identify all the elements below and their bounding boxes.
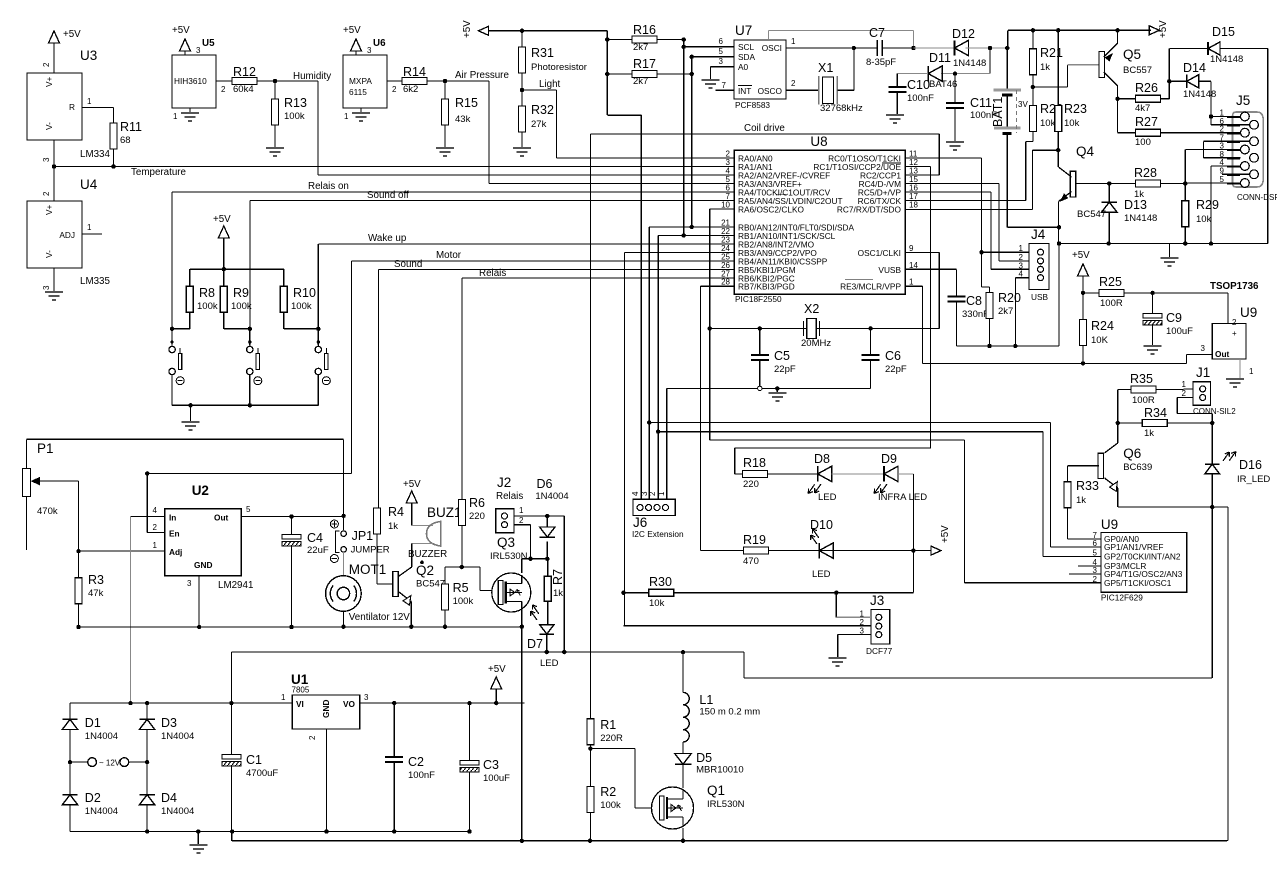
wire U2 In gray [131, 516, 165, 518]
svg-text:4: 4 [631, 491, 640, 496]
svg-text:D4: D4 [161, 791, 177, 805]
diode D9 INFRA LED [883, 466, 885, 481]
ground R13 [266, 147, 284, 149]
svg-text:100uF: 100uF [483, 773, 510, 784]
wire J6 pin4 gnd [666, 388, 668, 499]
svg-text:100k: 100k [291, 301, 312, 312]
resistor R34 1k [1118, 422, 1143, 424]
diode D4 1N4004 [146, 762, 148, 795]
overline UOE [882, 162, 901, 164]
svg-text:D9: D9 [881, 452, 897, 466]
svg-text:En: En [169, 529, 180, 539]
svg-text:RE3/MCLR/VPP: RE3/MCLR/VPP [840, 282, 901, 292]
transistor Q5 BC557 pnp [1099, 52, 1105, 78]
svg-text:U2: U2 [192, 483, 209, 498]
svg-text:J6: J6 [633, 515, 647, 530]
wire D15 right edge down [1267, 49, 1269, 244]
wire R25 to TSOP vcc [1153, 292, 1229, 294]
wire ground rail right [1059, 243, 1268, 245]
svg-text:U9: U9 [1101, 517, 1118, 532]
svg-text:R35: R35 [1130, 372, 1153, 386]
svg-text:R17: R17 [633, 57, 656, 71]
svg-text:D11: D11 [929, 51, 951, 65]
switch S1 [171, 329, 173, 346]
svg-text:INFRA LED: INFRA LED [878, 492, 927, 503]
svg-text:+5V: +5V [940, 525, 951, 543]
node R34/D16 [1210, 421, 1214, 425]
svg-text:GP5/T1CKI/OSC1: GP5/T1CKI/OSC1 [1104, 578, 1172, 588]
svg-text:MBR10010: MBR10010 [696, 765, 744, 776]
svg-text:D12: D12 [952, 27, 975, 41]
wire Q4 base to R28 [1075, 183, 1136, 185]
svg-text:1: 1 [87, 97, 92, 106]
svg-text:4700uF: 4700uF [246, 768, 278, 779]
svg-text:V+: V+ [44, 204, 54, 215]
svg-text:R5: R5 [453, 581, 469, 595]
wire usb gnd bus [957, 345, 1060, 347]
svg-text:Q6: Q6 [1123, 446, 1141, 461]
svg-text:R19: R19 [743, 533, 766, 547]
wire U8 pin14 VUSB [905, 268, 957, 270]
buzzer BUZ1 [412, 525, 431, 527]
wire TSOP gnd pin1 [1239, 359, 1241, 379]
svg-text:100k: 100k [600, 800, 621, 811]
svg-text:R: R [69, 102, 75, 112]
wire J5 pin5 from R28 node [1185, 182, 1240, 184]
svg-text:60k4: 60k4 [233, 84, 254, 95]
svg-text:2k7: 2k7 [998, 306, 1013, 317]
power +5V arrow U1 [494, 701, 498, 705]
svg-text:J2: J2 [497, 475, 511, 490]
wire Q6 base from R33 [1068, 465, 1100, 467]
svg-text:L1: L1 [699, 693, 713, 707]
wire D9 to +5V line [912, 474, 914, 593]
svg-text:SCL: SCL [738, 42, 755, 52]
wire Humidity [275, 80, 318, 82]
node Light [520, 88, 524, 92]
svg-text:3: 3 [367, 46, 372, 55]
svg-text:Q2: Q2 [416, 563, 434, 578]
overline MCLR RE3 [845, 278, 873, 280]
wire Q6 emitter down right [1227, 507, 1229, 840]
node R28/D13 [1107, 181, 1111, 185]
ground R32 [513, 147, 531, 149]
svg-text:U6: U6 [373, 38, 386, 49]
wire U9 pin4 stub [1078, 565, 1101, 567]
diode D16 IR_LED [1211, 423, 1213, 464]
ground main [197, 832, 199, 846]
wire J5 pin6 [1211, 124, 1250, 126]
svg-text:Relais: Relais [479, 268, 506, 279]
node R31 top [520, 29, 524, 33]
wire +5V top right rail [1008, 29, 1151, 31]
svg-text:P1: P1 [37, 441, 54, 456]
resistor R26 4k7 [1118, 98, 1136, 100]
svg-text:R9: R9 [233, 286, 249, 300]
svg-text:1: 1 [173, 112, 178, 121]
diode D1 1N4004 [69, 703, 71, 719]
svg-text:MXPA: MXPA [349, 76, 372, 86]
diode D11 BAT46 [989, 48, 991, 74]
wire SDA bus [691, 57, 693, 227]
svg-text:150 m 0.2 mm: 150 m 0.2 mm [699, 707, 760, 718]
wire J5 pins7-8 short [1204, 140, 1250, 142]
svg-text:4k7: 4k7 [1135, 103, 1150, 114]
svg-text:D14: D14 [1183, 61, 1206, 75]
svg-text:A0: A0 [738, 62, 749, 72]
svg-text:1N4004: 1N4004 [85, 806, 118, 817]
resistor R6 220 [459, 499, 466, 525]
svg-text:PIC18F2550: PIC18F2550 [735, 294, 782, 304]
svg-text:C9: C9 [1166, 311, 1182, 325]
resistor R30 10k [623, 592, 648, 594]
svg-text:I2C Extension: I2C Extension [632, 529, 684, 539]
ground U6 pin1 [360, 108, 362, 113]
svg-text:BC639: BC639 [1123, 462, 1152, 473]
resistor R29 10k [1184, 184, 1186, 201]
wire U1 VO rail [360, 702, 525, 704]
svg-text:22pF: 22pF [885, 364, 907, 375]
node Humidity [273, 79, 277, 83]
wire Q1 gate [590, 748, 635, 750]
svg-text:R1: R1 [600, 718, 616, 732]
node R28/J5 [1183, 181, 1187, 185]
svg-text:1: 1 [791, 37, 796, 46]
svg-text:1: 1 [87, 223, 92, 232]
resistor R18 220 [735, 473, 743, 475]
svg-text:BC557: BC557 [1123, 65, 1152, 76]
wire U4 ADJ stub [82, 233, 102, 235]
svg-text:C2: C2 [408, 755, 424, 769]
svg-text:V+: V+ [44, 76, 54, 87]
svg-text:2: 2 [221, 85, 226, 94]
svg-text:Adj: Adj [169, 547, 182, 557]
transistor Q1 IRL530N [652, 787, 694, 829]
resistor R27 100 [1117, 99, 1119, 133]
wire J5 pin2 from R27 [1161, 132, 1241, 134]
resistor R28 1k [1136, 180, 1161, 187]
svg-text:3: 3 [187, 579, 192, 588]
node R6/R5/gate [460, 565, 464, 569]
wire U8 pin9 OSC1 [905, 252, 939, 254]
svg-text:BC547: BC547 [416, 579, 445, 590]
svg-text:R20: R20 [998, 291, 1021, 305]
svg-text:1N4004: 1N4004 [535, 491, 568, 502]
wire +5V drop to J6 pin1 [606, 31, 608, 115]
wire Q3 source [521, 610, 523, 841]
power +5V buzzer [406, 491, 417, 503]
battery BAT1 3V [1006, 48, 1008, 90]
resistor R31 Photoresistor [521, 31, 523, 47]
svg-text:IRL530N: IRL530N [707, 799, 745, 810]
svg-text:2: 2 [791, 79, 796, 88]
ground R15 [436, 147, 454, 149]
svg-text:1N4148: 1N4148 [1124, 213, 1157, 224]
svg-text:R27: R27 [1135, 115, 1158, 129]
node L1 top [681, 650, 685, 654]
svg-text:Out: Out [1215, 349, 1230, 359]
svg-text:27k: 27k [531, 119, 547, 130]
wire U8 pin28 RB7 [700, 285, 734, 287]
svg-text:R2: R2 [600, 785, 616, 799]
node Out/JP1 [341, 514, 345, 518]
svg-text:R4: R4 [388, 505, 404, 519]
svg-text:3: 3 [719, 57, 724, 66]
ground TSOP [1226, 378, 1244, 380]
wire J5 pin4 to gnd [1211, 165, 1241, 167]
svg-text:+5V: +5V [213, 214, 231, 225]
wire J6 pin2 SDA [648, 227, 650, 499]
wire U7 INT pin7 stub [715, 89, 734, 91]
wire Q1 source [682, 828, 684, 841]
capacitor C2 100nF [392, 701, 396, 705]
svg-text:R7: R7 [551, 569, 565, 585]
wire U7 VDD gray [767, 30, 769, 39]
ground C5C6 [776, 388, 778, 393]
diode D3 1N4004 [146, 703, 148, 719]
overline SS RA5 [776, 193, 786, 195]
power +5V left arrow [479, 26, 489, 35]
svg-text:22uF: 22uF [307, 545, 329, 556]
node X1 top [852, 46, 856, 50]
ic U9 PIC12F629 [1101, 533, 1187, 593]
svg-text:+5V: +5V [462, 20, 473, 38]
wire +5V led line [700, 550, 931, 552]
svg-text:R8: R8 [199, 286, 215, 300]
svg-text:+5V: +5V [1072, 250, 1090, 261]
node rail Q5e [1115, 28, 1119, 32]
svg-text:18: 18 [909, 201, 918, 210]
wire U8 pin22 SCL [658, 235, 734, 237]
wire U3 pin1 to R11 [82, 107, 114, 109]
svg-text:BAT1: BAT1 [991, 97, 1005, 127]
svg-text:100R: 100R [1100, 298, 1123, 309]
wire U7 SDA pin5 [692, 56, 734, 58]
connector J1 CONN-SIL2 [1193, 382, 1211, 406]
svg-text:BUZZER: BUZZER [408, 549, 447, 560]
wire J6 pin3 SCL [657, 236, 659, 500]
svg-text:2: 2 [392, 85, 397, 94]
svg-text:R11: R11 [120, 120, 142, 134]
ground U5 pin1 [189, 108, 191, 113]
node D13 gnd rail [1106, 241, 1110, 245]
svg-text:2k7: 2k7 [633, 76, 648, 87]
resistor R17 2k7 [607, 73, 632, 75]
ic U1 7805 [292, 695, 359, 729]
node C7/D12 [911, 46, 915, 50]
svg-text:20MHz: 20MHz [801, 338, 831, 349]
svg-text:Coil drive: Coil drive [744, 123, 785, 134]
wire J1 pin1 [1184, 388, 1194, 390]
resistor R32 27k [521, 90, 523, 106]
node R29 gnd rail [1183, 241, 1187, 245]
svg-text:Relais: Relais [496, 491, 523, 502]
wire J3 pin1 [835, 593, 837, 618]
svg-text:1: 1 [153, 541, 158, 550]
svg-text:Sound: Sound [394, 259, 422, 270]
node C5 top [758, 326, 762, 330]
diode D6 1N4004 [546, 516, 548, 527]
wire U2 GND pin3 [198, 576, 200, 627]
svg-text:U7: U7 [735, 23, 752, 38]
connector J3 DCF77 [871, 610, 890, 644]
motor MOT1 Ventilator 12V [343, 552, 345, 576]
svg-text:3: 3 [364, 693, 369, 702]
wire 12V return line [744, 677, 1212, 679]
node R17/SDA [690, 72, 694, 76]
node R30/J3 [834, 591, 838, 595]
wire mid gnd rail [79, 626, 522, 628]
node R25/C9 [1150, 291, 1154, 295]
wire U8 pin21 SDA [649, 226, 734, 228]
capacitor C7 8-35pF trimmer [876, 40, 878, 56]
wire En line [145, 471, 149, 475]
svg-text:Relais on: Relais on [308, 181, 349, 192]
svg-text:D13: D13 [1124, 198, 1147, 212]
svg-text:R18: R18 [743, 456, 766, 470]
svg-text:4: 4 [153, 506, 158, 515]
svg-text:2: 2 [519, 516, 524, 525]
svg-text:In: In [169, 513, 176, 523]
svg-text:2: 2 [42, 191, 51, 196]
svg-text:100R: 100R [1132, 395, 1155, 406]
svg-text:R28: R28 [1134, 166, 1157, 180]
svg-text:R23: R23 [1064, 102, 1087, 116]
wire Q1 drain [682, 764, 684, 788]
svg-text:BC547: BC547 [1077, 209, 1106, 220]
svg-text:R13: R13 [284, 96, 307, 110]
svg-text:22pF: 22pF [774, 364, 796, 375]
svg-text:10k: 10k [1196, 214, 1212, 225]
svg-text:+5V: +5V [1158, 20, 1169, 38]
node rail R23 [1056, 28, 1060, 32]
wire OSC line [710, 327, 940, 329]
ground J3 [829, 657, 847, 659]
resistor R16 2k7 [607, 39, 632, 41]
svg-text:J5: J5 [1236, 93, 1250, 108]
svg-text:U8: U8 [810, 134, 827, 149]
wire U8 pin18 RX to Q4 collector [905, 209, 1032, 211]
wire TSOP out [1186, 353, 1212, 355]
svg-text:6k2: 6k2 [403, 84, 418, 95]
wire U8 pin6 Relais on [172, 191, 734, 193]
resistor R5 100k [444, 567, 446, 584]
svg-text:D15: D15 [1212, 25, 1235, 39]
capacitor C3 100uF [467, 701, 471, 705]
svg-text:9: 9 [909, 244, 914, 253]
wire U8 pin27 Relais [462, 277, 734, 279]
svg-text:VUSB: VUSB [878, 265, 901, 275]
node C6 top [868, 326, 872, 330]
svg-text:GP1/AN1/VREF: GP1/AN1/VREF [1104, 542, 1163, 552]
node D14 [1167, 79, 1171, 83]
node rail R21 [1031, 28, 1035, 32]
svg-text:100nF: 100nF [408, 770, 435, 781]
svg-text:BUZ1: BUZ1 [427, 505, 462, 520]
node switch3 top [316, 327, 320, 331]
svg-text:LED: LED [818, 492, 837, 503]
resistor R2 100k [589, 749, 591, 787]
node D6 top [545, 514, 549, 518]
wire J4 pin1 VBUS [982, 251, 1030, 253]
wire U8 pin12 RC1 [905, 166, 931, 168]
wire P1 top line [27, 438, 344, 440]
svg-text:R12: R12 [233, 65, 256, 79]
svg-text:R10: R10 [293, 286, 316, 300]
svg-text:7805: 7805 [292, 686, 310, 695]
wire P1 wiper to Adj [78, 481, 80, 551]
wire switch pullup bus [190, 268, 284, 270]
svg-text:R24: R24 [1091, 319, 1114, 333]
svg-text:Wake up: Wake up [368, 233, 407, 244]
node J2pin1 12V [562, 650, 566, 654]
svg-text:470k: 470k [37, 506, 58, 517]
wire U8 pin1 MCLR [905, 285, 923, 287]
svg-text:D16: D16 [1239, 458, 1262, 472]
connector J5 CONN-DSF [1233, 112, 1264, 187]
wire U3-U4 vertical [53, 140, 55, 201]
svg-text:8-35pF: 8-35pF [866, 57, 896, 68]
svg-text:10K: 10K [1091, 335, 1109, 346]
svg-text:10k: 10k [1040, 118, 1056, 129]
wire U8 pin25 Motor [352, 260, 735, 262]
transistor Q3 IRL530N [492, 573, 531, 612]
svg-text:10k: 10k [649, 598, 665, 609]
power +5V switches [218, 226, 229, 238]
svg-text:RC7/RX/DT/SDO: RC7/RX/DT/SDO [837, 205, 902, 215]
svg-text:C7: C7 [869, 26, 885, 40]
svg-text:GND: GND [321, 700, 331, 718]
wire J5 pin9 stub [1222, 173, 1250, 175]
wire sound-off down [249, 201, 251, 329]
svg-text:2: 2 [1182, 389, 1187, 398]
resistor R10 100k [283, 269, 285, 286]
transistor Q6 BC639 [1117, 423, 1119, 443]
wire 12V top rail [70, 702, 292, 704]
resistor R15 43k [444, 81, 446, 99]
resistor R19 470 [744, 547, 769, 554]
svg-text:OSC1/CLKI: OSC1/CLKI [858, 248, 901, 258]
crystal X2 20MHz [803, 321, 805, 336]
wire U8 pin23 Wake up [318, 243, 734, 245]
wire I2C line B to U9 pin5 [658, 431, 1043, 433]
node D7 12V [545, 650, 549, 654]
wire OSC2 to U9 pin2 [710, 439, 965, 441]
resistor R25 100R [1083, 292, 1099, 294]
node Q5 collector / R26 R27 [1115, 97, 1119, 101]
svg-text:IR_LED: IR_LED [1237, 474, 1270, 485]
power +5V arrow right [1149, 26, 1159, 35]
wire U1 gnd [326, 729, 328, 832]
node Q4 collector [1056, 148, 1060, 152]
wire U8 pin10 RA6/OSC2 [710, 208, 734, 210]
svg-text:2: 2 [1093, 575, 1098, 584]
svg-text:U5: U5 [202, 38, 215, 49]
node R30 left [621, 591, 625, 595]
svg-text:CONN-DSF: CONN-DSF [1237, 193, 1277, 202]
node Q3 drain line [528, 557, 532, 561]
node rail Q4e [1057, 241, 1061, 245]
capacitor C10 100nF [896, 74, 898, 87]
wire Q5 base route [1033, 86, 1068, 88]
svg-text:VO: VO [343, 699, 356, 709]
capacitor C11 100nF [953, 71, 957, 75]
resistor R33 1k [1064, 482, 1071, 508]
svg-text:U3: U3 [80, 48, 97, 63]
svg-text:6: 6 [1093, 539, 1098, 548]
wire J5 pin1 [1211, 116, 1241, 118]
svg-text:CONN-SIL2: CONN-SIL2 [1193, 407, 1236, 416]
